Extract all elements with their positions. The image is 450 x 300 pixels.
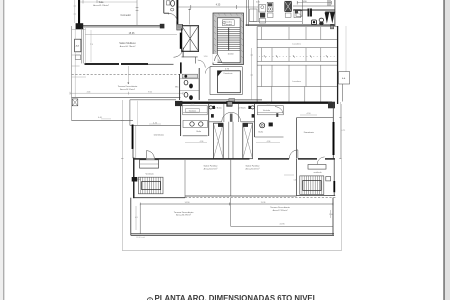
small dim arrow <box>127 66 129 84</box>
svg-text:Principal: Principal <box>225 23 233 26</box>
center shaft verticals <box>229 122 233 159</box>
wall strip y=99.7 <box>208 99 262 101</box>
hatch ticks on stairwell walls <box>214 14 243 59</box>
scan right edge strip <box>445 0 450 300</box>
dim line top right <box>297 2 332 4</box>
door arc WC <box>169 13 177 21</box>
main thick wall <box>176 101 332 103</box>
V fixtures <box>325 13 330 24</box>
right wall of strip <box>334 0 336 26</box>
wall WC bottom <box>164 12 169 14</box>
thick wall bottom of kitchen strip <box>246 24 335 26</box>
vestidor left: closet <box>183 106 208 115</box>
dim labels above salon familiar <box>185 142 280 144</box>
dashed projection line <box>72 73 180 75</box>
left dormitorio <box>130 124 181 126</box>
bottom double line <box>131 233 334 235</box>
elevator shaft box <box>182 26 199 52</box>
left dim line <box>122 100 341 251</box>
band horizontals <box>257 27 337 87</box>
A.A box right <box>339 72 350 84</box>
bottom line <box>210 94 242 96</box>
closet right <box>257 106 283 115</box>
center wall right <box>254 104 256 137</box>
elevator left thick wall <box>180 33 182 49</box>
svg-text:4.96: 4.96 <box>200 141 204 143</box>
left wall of stair section <box>133 158 135 199</box>
right thick wall <box>333 122 335 155</box>
svg-text:Comedor: Comedor <box>121 14 131 17</box>
svg-text:Lavadero: Lavadero <box>292 43 302 46</box>
column at Sala bottom-left <box>76 23 84 29</box>
svg-text:Area=64.Dmts²: Area=64.Dmts² <box>245 167 259 170</box>
cabinet boxes left cluster <box>250 9 258 22</box>
svg-text:Salon Familiar: Salon Familiar <box>204 165 218 168</box>
bath right fixtures <box>260 123 265 128</box>
svg-text:Vestidor: Vestidor <box>189 109 197 112</box>
svg-text:Vestibulo: Vestibulo <box>145 173 154 176</box>
toilet 1/2 bano left <box>209 106 213 109</box>
box with diagonal <box>296 11 302 16</box>
vertical dim line in hall <box>189 9 191 25</box>
svg-text:Area=44.31mts²: Area=44.31mts² <box>120 88 135 91</box>
vertical dim line left of bands <box>251 48 253 100</box>
terraza dim line <box>70 92 183 94</box>
left thick wall <box>132 125 134 150</box>
svg-text:4.46: 4.46 <box>87 92 91 94</box>
window X box <box>72 99 78 106</box>
wall: salon bottom thick segments <box>85 63 120 65</box>
gray column above elevator <box>177 25 182 29</box>
stairwell door gap <box>213 54 218 63</box>
svg-text:4.96: 4.96 <box>267 141 271 143</box>
terraza bottom line <box>72 96 181 98</box>
escalera label box <box>222 20 234 26</box>
shaft towers <box>213 123 223 159</box>
gray block <box>330 24 333 29</box>
left boundary lines <box>71 26 73 121</box>
dim line top of Sala <box>80 1 137 3</box>
sink in WC <box>171 8 174 11</box>
scan left border line <box>3 0 4 300</box>
ALB box on left wall <box>75 39 81 52</box>
band1 dividers <box>261 27 321 40</box>
svg-text:Area=27.82mts²: Area=27.82mts² <box>273 209 288 212</box>
door arc to right dormitorio <box>275 107 283 115</box>
hall line below elevator <box>182 56 198 58</box>
vertical dim left <box>135 206 137 230</box>
center wall left <box>208 104 210 136</box>
right dormitorio <box>297 117 333 119</box>
door arc left dormitorio <box>146 151 154 159</box>
treads center divider <box>228 28 230 51</box>
svg-text:15.06: 15.06 <box>129 33 135 35</box>
gray counter in hall <box>182 74 197 78</box>
thick black wall below elevator <box>180 62 182 73</box>
wall between Sala and Comedor (thin) <box>136 0 138 25</box>
band2 dividers <box>261 48 321 62</box>
left dim column extras <box>74 0 76 23</box>
svg-text:Area=50.78mts²: Area=50.78mts² <box>120 45 136 48</box>
laundry walls right <box>293 5 334 7</box>
center gray column <box>227 102 232 106</box>
terrace boundaries <box>130 198 132 236</box>
svg-text:10.160: 10.160 <box>228 54 234 56</box>
hall door arcs <box>198 60 206 68</box>
svg-text:14.96: 14.96 <box>184 202 190 204</box>
toilet in WC <box>167 1 170 5</box>
tall dark unit <box>308 9 313 17</box>
stairwell gray walls <box>213 13 244 65</box>
band3 dividers <box>261 65 321 86</box>
svg-text:Terraza Descubierta: Terraza Descubierta <box>174 211 194 214</box>
inner room box <box>218 71 241 93</box>
door arc salon right <box>174 48 184 58</box>
svg-text:Lavadero: Lavadero <box>292 80 302 83</box>
svg-text:WC: WC <box>175 86 179 88</box>
svg-text:2.76: 2.76 <box>191 104 195 106</box>
svg-text:Area=64.2mts²: Area=64.2mts² <box>204 167 218 170</box>
column right of door <box>177 24 183 30</box>
wall WC right thick <box>176 0 178 26</box>
svg-text:Dormitorio: Dormitorio <box>304 131 315 134</box>
dim line inside salon <box>85 34 177 36</box>
svg-text:41.96: 41.96 <box>279 224 285 226</box>
dark columns on wall <box>175 101 182 106</box>
door arc right dormitorio <box>289 150 298 159</box>
svg-text:Vestidor: Vestidor <box>263 109 271 112</box>
wall: top band bottom (horizontal) <box>81 25 161 27</box>
svg-text:Salon Multiuso: Salon Multiuso <box>119 42 136 45</box>
bath left: counter and sinks <box>180 104 182 136</box>
right stair thick wall <box>333 181 335 192</box>
svg-text:Area=41.33mts²: Area=41.33mts² <box>93 4 109 7</box>
svg-text:1.06: 1.06 <box>137 179 141 181</box>
right dim line <box>339 102 341 159</box>
band4 dividers <box>272 87 321 102</box>
mid boxes <box>294 10 301 18</box>
dashed projection line <box>185 197 337 199</box>
vertical dim <box>90 30 92 62</box>
stair treads <box>217 28 240 51</box>
right section outline <box>296 159 298 196</box>
louver tick row <box>259 55 336 57</box>
svg-text:Salon Familiar: Salon Familiar <box>246 165 260 168</box>
thin line above dormitorio zone <box>130 99 176 101</box>
stove unit <box>267 2 273 12</box>
shaft verticals left of kitchen <box>254 0 259 22</box>
counter front edge line <box>249 20 302 22</box>
left wall <box>246 0 248 26</box>
svg-text:9.06: 9.06 <box>148 92 152 94</box>
toilet 1/2 bano right <box>248 106 250 109</box>
window double line left <box>82 28 84 63</box>
right main wall <box>337 26 339 104</box>
svg-text:1/2 Baño: 1/2 Baño <box>238 107 247 110</box>
svg-text:Dormitorio: Dormitorio <box>154 133 165 136</box>
svg-text:Terraza Descubierta: Terraza Descubierta <box>270 206 290 209</box>
wall WC left <box>163 0 165 13</box>
svg-text:Sala: Sala <box>99 1 104 4</box>
salones bottom line <box>185 195 297 197</box>
gray block on that wall <box>229 99 235 103</box>
dim line over hall <box>179 6 259 8</box>
center wall between salones <box>230 159 232 196</box>
bottom wall of middle band with door gaps <box>133 158 146 160</box>
stacked ovals fixture <box>319 18 324 22</box>
svg-text:PLANTA ARQ. DIMENSIONADAS 6TO: PLANTA ARQ. DIMENSIONADAS 6TO NIVEL <box>155 294 318 300</box>
svg-text:4.35: 4.35 <box>216 4 221 6</box>
right vestibulo <box>308 165 326 170</box>
svg-text:1.06: 1.06 <box>294 179 298 181</box>
svg-text:Area=36.39mts²: Area=36.39mts² <box>176 214 191 217</box>
stair door arc <box>215 54 222 63</box>
outer lines <box>210 66 242 68</box>
scan right border line <box>443 0 444 300</box>
svg-text:4.3: 4.3 <box>135 217 138 219</box>
refrigerator dark with X <box>285 1 292 12</box>
svg-text:1/2 Baño: 1/2 Baño <box>214 107 223 110</box>
svg-text:15.80 total: 15.80 total <box>136 236 145 239</box>
svg-text:2.76: 2.76 <box>267 104 271 106</box>
terrace top line <box>140 203 333 205</box>
washer <box>312 20 317 25</box>
lower edge of left wing <box>72 120 133 122</box>
svg-text:1.50: 1.50 <box>329 214 333 216</box>
wall: Sala left thick <box>78 0 80 25</box>
svg-text:Terraza Descubierta: Terraza Descubierta <box>118 85 138 88</box>
svg-text:vestibulo: vestibulo <box>314 171 323 174</box>
door arc right vestibulo <box>317 157 324 164</box>
left vestibulo closet <box>140 160 159 168</box>
scan left edge strip <box>0 0 3 300</box>
svg-text:Dormitorio: Dormitorio <box>224 72 233 75</box>
center double-door arc <box>222 112 241 121</box>
